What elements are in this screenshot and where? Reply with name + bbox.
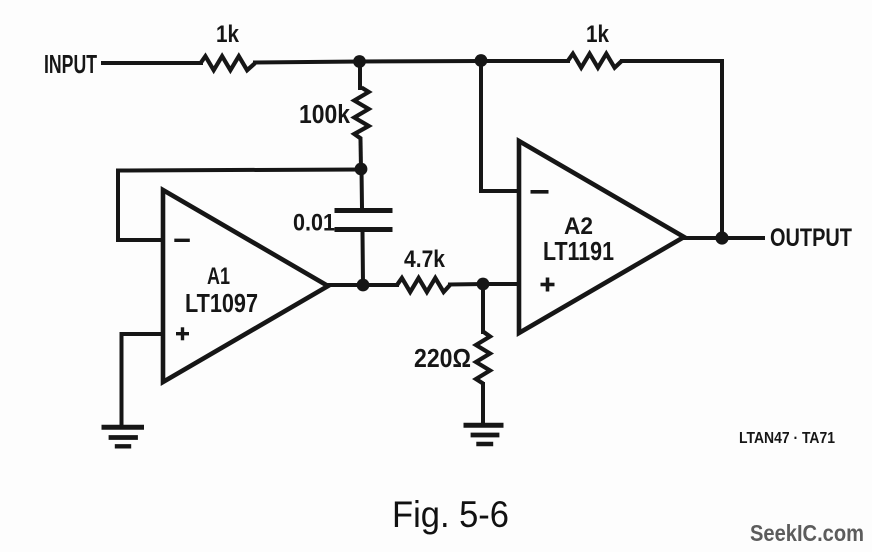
node B (1k feedback junction)	[475, 54, 488, 67]
svg-text:INPUT: INPUT	[44, 51, 97, 79]
resistor R3 1k (feedback)	[568, 54, 622, 68]
svg-text:0.01: 0.01	[293, 210, 335, 237]
svg-text:LT1097: LT1097	[185, 288, 258, 318]
op-amp A2 triangle	[519, 141, 684, 333]
wire capacitor C1 to node D	[361, 232, 366, 284]
op-amp A1 triangle	[163, 190, 328, 382]
svg-text:100k: 100k	[299, 101, 351, 129]
svg-text:LTAN47 · TA71: LTAN47 · TA71	[739, 430, 835, 447]
capacitor C1 bottom plate	[337, 227, 390, 232]
wire node A down to R2	[358, 62, 362, 89]
svg-text:Fig. 5-6: Fig. 5-6	[392, 493, 509, 535]
svg-text:A2: A2	[564, 213, 593, 240]
wire node E to A2 non-inverting input	[483, 282, 517, 286]
resistor R1 1k (input)	[201, 56, 256, 70]
node C (100k/cap/A1 inverting loop junction)	[355, 163, 368, 176]
capacitor C1 top plate	[337, 208, 390, 213]
resistor R4 4.7k	[397, 278, 450, 292]
wire A1 non-inverting input to ground	[122, 334, 162, 425]
wire A2 output	[684, 236, 763, 240]
ground G1	[104, 425, 142, 430]
node E (4.7k / 220 / A2+ junction)	[477, 278, 490, 291]
resistor R2 100k	[354, 88, 368, 140]
wire R4 to node E	[450, 282, 483, 287]
node D (A1 out / cap junction)	[357, 279, 370, 292]
wire node A to node B	[359, 59, 481, 64]
A2 non-inverting pin plus sign	[541, 283, 555, 287]
output node	[715, 231, 728, 244]
wire node B down to A2 inverting input	[481, 61, 517, 191]
svg-text:1k: 1k	[216, 21, 239, 48]
wire node C down to capacitor C1	[360, 169, 365, 208]
node A (input/100k junction)	[353, 55, 366, 68]
wire R5 to ground G2	[481, 384, 485, 423]
wire INPUT to R1	[103, 61, 201, 65]
A2 inverting pin minus sign	[531, 190, 549, 194]
wire R2 to node C	[359, 140, 364, 169]
wire node C to A1 inverting input (feedback loop)	[118, 170, 361, 241]
wire node E down to R5	[481, 284, 485, 332]
wire R1 to node A	[255, 62, 359, 63]
resistor R5 220 ohm	[476, 332, 490, 384]
svg-text:4.7k: 4.7k	[404, 246, 445, 273]
svg-text:A1: A1	[207, 263, 230, 290]
wire node B to R3	[481, 59, 568, 63]
wire A1 output to R4	[328, 283, 397, 287]
ground G2	[466, 423, 501, 428]
wire R3 to output node	[622, 61, 722, 238]
svg-text:SeekIC.com: SeekIC.com	[750, 520, 864, 546]
A1 non-inverting pin plus sign	[176, 332, 189, 335]
svg-text:220Ω: 220Ω	[414, 343, 471, 373]
svg-text:LT1191: LT1191	[543, 238, 614, 266]
svg-text:OUTPUT: OUTPUT	[770, 224, 852, 252]
svg-text:1k: 1k	[586, 21, 609, 48]
A1 inverting pin minus sign	[174, 239, 190, 242]
